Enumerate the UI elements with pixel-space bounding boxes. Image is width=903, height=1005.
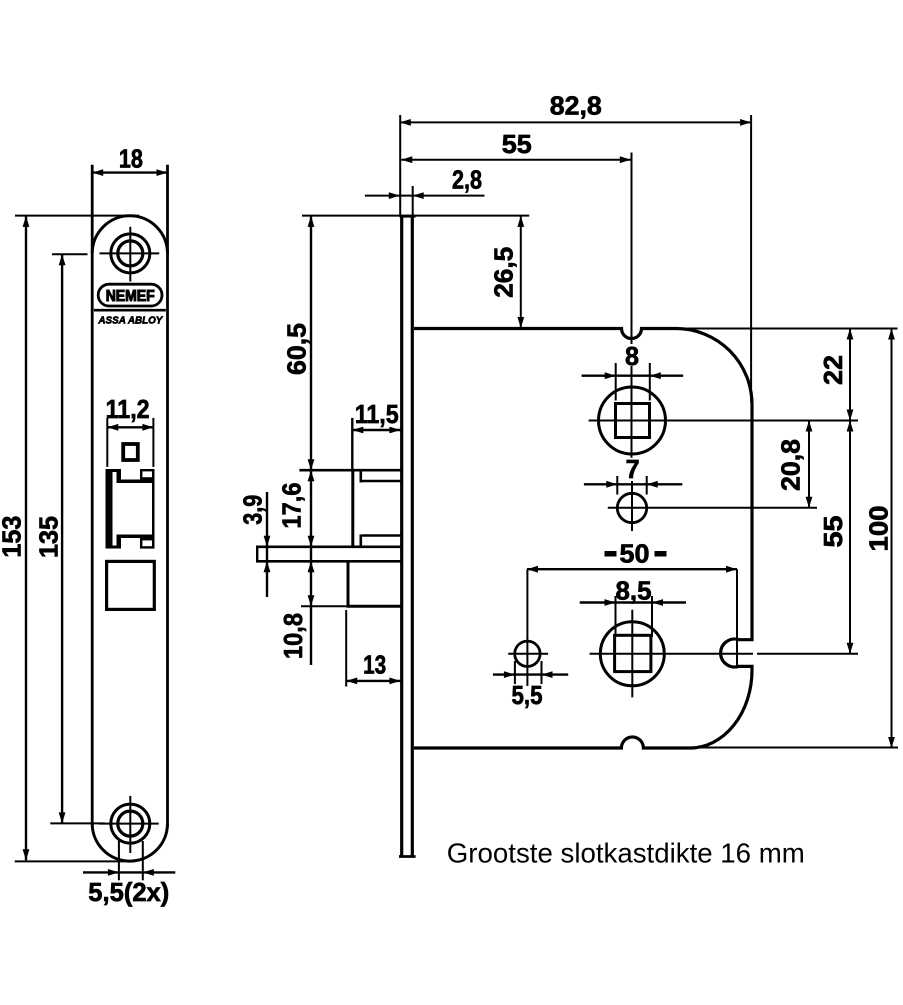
svg-text:13: 13: [363, 649, 386, 679]
svg-text:NEMEF: NEMEF: [106, 288, 155, 305]
svg-text:ASSA ABLOY: ASSA ABLOY: [97, 314, 163, 326]
svg-text:3,9: 3,9: [238, 495, 268, 525]
svg-text:82,8: 82,8: [550, 91, 602, 121]
svg-text:11,5: 11,5: [355, 399, 399, 429]
svg-text:17,6: 17,6: [276, 483, 306, 529]
svg-text:11,2: 11,2: [106, 394, 150, 424]
svg-text:5,5(2x): 5,5(2x): [88, 877, 169, 907]
svg-text:50: 50: [620, 539, 650, 569]
svg-text:60,5: 60,5: [281, 323, 311, 375]
svg-text:8: 8: [625, 341, 639, 371]
svg-text:18: 18: [119, 144, 143, 174]
svg-text:5,5: 5,5: [512, 680, 543, 710]
svg-text:20,8: 20,8: [775, 439, 805, 491]
svg-text:22: 22: [818, 355, 848, 385]
svg-text:55: 55: [502, 129, 532, 159]
svg-text:135: 135: [33, 516, 63, 558]
svg-text:Grootste slotkastdikte 16 mm: Grootste slotkastdikte 16 mm: [447, 838, 805, 869]
svg-text:26,5: 26,5: [489, 247, 519, 298]
svg-text:10,8: 10,8: [278, 613, 308, 659]
svg-text:7: 7: [626, 454, 640, 484]
svg-text:8,5: 8,5: [616, 575, 652, 605]
svg-text:153: 153: [0, 516, 27, 558]
svg-text:55: 55: [818, 516, 848, 548]
svg-text:100: 100: [863, 506, 893, 552]
svg-text:2,8: 2,8: [452, 164, 482, 194]
